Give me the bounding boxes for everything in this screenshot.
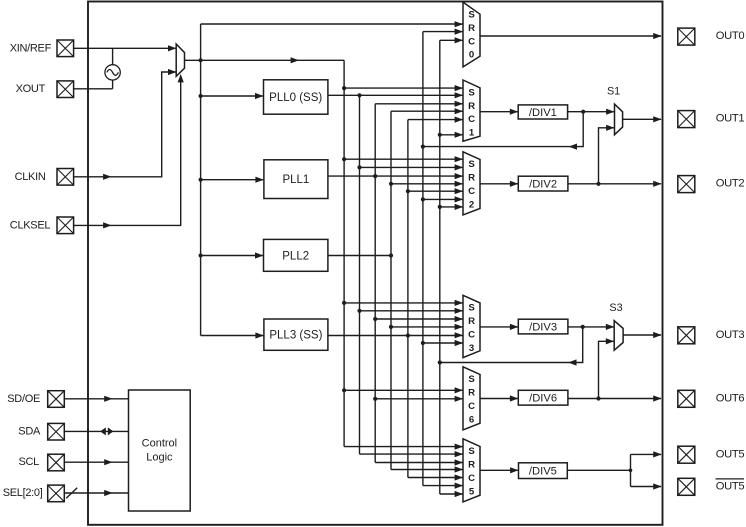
node SRC2 input1 junction [342,156,463,162]
svg-text:OUT6: OUT6 [716,392,745,404]
PLL1 block [264,160,328,199]
wire bus to SRC5 input 4 [391,466,463,472]
wire input mux output [185,57,345,63]
node PLL1 input junction [199,178,203,182]
svg-text:/DIV5: /DIV5 [529,466,557,478]
wire PLL1 bus vertical x375 [374,104,376,463]
wire to PLL3 input [201,332,264,338]
svg-text:S: S [468,159,475,170]
wire PLL2 bus vertical x391 [390,111,392,469]
svg-text:OUT3: OUT3 [716,329,745,341]
pin XOUT [16,81,74,98]
svg-text:S: S [468,374,475,385]
mux SRC2 [463,152,480,215]
wire SEL[2:0] to control logic [64,488,128,499]
svg-text:R: R [468,173,475,184]
svg-text:OUT5: OUT5 [716,448,745,460]
svg-text:CLKIN: CLKIN [15,171,46,183]
svg-text:3: 3 [469,343,474,354]
wire to PLL2 input [201,252,264,258]
svg-text:R: R [468,316,475,327]
node PLL0 bus junction [357,93,361,97]
wire bus to SRC5 input 3 [375,459,463,465]
mux SRC5 [463,439,480,502]
divider /DIV6 [518,390,568,405]
svg-text:S1: S1 [607,85,620,97]
wire PLL0 bus vertical x359 [359,95,361,454]
divider /DIV3 [518,319,568,334]
wire bus to SRC0 input 2 [423,29,463,35]
svg-text:/DIV1: /DIV1 [529,107,557,119]
svg-text:R: R [468,460,475,471]
PLL2 block [264,239,328,271]
svg-text:PLL3 (SS): PLL3 (SS) [269,330,322,342]
svg-text:S: S [468,303,475,314]
svg-text:C: C [468,401,475,412]
divider /DIV2 [518,176,568,191]
wire PLL3 bus vertical x408 [407,120,409,478]
wire to PLL1 input [201,177,264,183]
node mux output junction [199,58,203,62]
node PLL3 bus junction [406,333,410,337]
wire DIV6 tap to S3 input 2 [599,338,615,398]
svg-text:1: 1 [469,128,475,139]
wire bus to SRC1 input 3 [375,101,463,107]
wire bus to SRC1 input 4 [391,108,463,114]
wire SRC5 output to DIV5 [480,467,519,473]
wire SD/OE to control logic [64,396,128,402]
node SRC3 input2 junction [357,308,463,314]
node PLL2 input junction [199,253,203,257]
wire S1 output to OUT1 [623,116,662,122]
svg-text:PLL0 (SS): PLL0 (SS) [269,92,322,104]
mux SRC6 [463,367,480,430]
chip outline border [88,2,663,525]
node SRC2 input2 junction [357,164,463,170]
mux SRC1 [463,80,480,141]
node SRC1 input1 junction [342,85,463,91]
svg-text:0: 0 [469,50,474,61]
node SRC6 input2 junction [373,396,463,402]
svg-text:C: C [468,114,475,125]
svg-text:C: C [468,473,475,484]
wire bus to SRC5 input 2 [360,451,464,457]
node SRC2 input7 junction [438,204,463,210]
label S3 [609,302,622,314]
wire DIV1 output to S1 [568,109,615,115]
mux S1 [615,104,623,135]
svg-text:SD/OE: SD/OE [7,393,40,405]
wire PLL3 output to SRC3 [328,332,463,338]
svg-text:SEL[2:0]: SEL[2:0] [3,487,43,499]
node SRC2 input6 junction [421,196,463,202]
node SRC2 input5 junction [406,188,463,194]
mux SRC3 [463,295,480,357]
wire S3 output to OUT3 [623,332,662,338]
svg-text:C: C [468,186,475,197]
wire SRC1 output to DIV1 [480,109,518,115]
svg-text:PLL1: PLL1 [282,174,309,186]
svg-text:Control: Control [142,438,177,450]
wire SRC3 output to DIV3 [480,324,518,330]
wire DIV5 output split to OUT5 pair [567,451,661,489]
wire SRC2 output to DIV2 [480,181,518,187]
wire bus to SRC0 input 3 [440,37,463,43]
PLL3 (SS) block [264,319,328,350]
pin OUT1 [678,111,745,128]
wire DIV3 feedback bus vertical x440 [439,40,441,494]
svg-text:C: C [468,36,475,47]
node PLL0 input junction [199,94,203,98]
wire CLKSEL to input mux select [74,74,184,229]
svg-text:R: R [468,101,475,112]
pin SEL[2:0] [3,485,65,502]
input mux (reference select) [176,44,184,76]
node SRC3 input4 junction [389,324,463,330]
wire XIN/REF to input mux [74,45,177,51]
label S1 [607,85,620,97]
svg-text:R: R [468,23,475,34]
wire DIV2 output to OUT2 [568,181,662,187]
svg-text:C: C [468,330,475,341]
svg-text:S: S [468,446,475,457]
svg-text:SCL: SCL [19,456,40,468]
wire SDA to control logic (bidirectional) [64,427,128,435]
wire reference bus vertical [200,24,202,336]
wire bus to SRC1 input 5 [408,117,463,123]
wire PLL1 output to SRC2 [328,173,463,179]
svg-text:S: S [468,10,475,21]
pin OUT5 [678,446,745,463]
wire bus to SRC5 input 6 [423,483,463,489]
svg-text:S3: S3 [609,302,622,314]
pin OUT0 [678,28,745,45]
wire PLL0 output to SRC1 [328,92,463,98]
pin SDA [18,423,64,440]
svg-text:OUT0: OUT0 [716,30,745,42]
node SRC3 input1 junction [342,300,463,306]
wire DIV2 tap to S1 input 2 [599,125,615,184]
mux S3 [614,321,623,351]
svg-text:PLL2: PLL2 [282,250,309,262]
pin XIN/REF [10,40,74,57]
svg-text:OUT2: OUT2 [716,178,745,190]
Control Logic block [129,390,191,511]
svg-text:XOUT: XOUT [16,83,46,95]
wire PLL2 output to bus [328,255,391,257]
svg-text:Logic: Logic [146,452,173,464]
divider /DIV5 [519,463,568,479]
pin OUT6 [678,390,745,407]
svg-text:/DIV3: /DIV3 [529,322,557,334]
svg-text:6: 6 [469,414,474,425]
wire XOUT to crystal [74,88,113,90]
svg-text:OUT1: OUT1 [716,113,745,125]
wire DIV1 feedback bus vertical x423 [422,32,424,486]
svg-text:/DIV6: /DIV6 [529,393,557,405]
node PLL2 bus junction [389,253,393,257]
svg-text:S: S [468,87,475,98]
wire to PLL0 input [201,93,264,99]
wire SCL to control logic [64,459,128,465]
pin OUT2 [678,176,745,193]
PLL0 (SS) block [264,80,328,114]
svg-text:/DIV2: /DIV2 [529,179,557,191]
wire SRC6 output to DIV6 [480,395,518,401]
svg-text:XIN/REF: XIN/REF [10,42,52,54]
pin CLKSEL [10,217,74,234]
wire DIV3 output to S3 [568,324,614,330]
node PLL1 bus junction [373,174,377,178]
wire DIV1 feedback to bus [421,112,583,150]
wire DIV6 output to OUT6 [568,395,662,401]
wire SRC0 output to OUT0 [480,33,662,39]
mux SRC0 [463,2,480,67]
node SRC2 input4 junction [389,181,463,187]
node SRC1 input6 junction [438,132,463,138]
wire CLKIN to input mux [74,69,177,180]
wire bus to SRC0 input 1 [201,21,463,27]
wire DIV3 feedback to bus [438,327,583,366]
svg-text:SDA: SDA [18,425,41,437]
node SRC3 input6 junction [421,340,463,346]
pin SD/OE [7,391,64,408]
pin OUT5bar [678,478,745,495]
wire bus to SRC5 input 5 [408,474,463,480]
node SRC3 input3 junction [373,316,463,322]
wire bus to SRC5 input 7 [440,491,463,497]
node SRC6 input1 junction [342,387,463,393]
svg-text:5: 5 [469,486,475,497]
svg-text:2: 2 [469,199,474,210]
svg-text:OUT5: OUT5 [716,480,745,492]
svg-text:CLKSEL: CLKSEL [10,219,51,231]
divider /DIV1 [518,105,567,119]
svg-text:R: R [468,388,475,399]
pin OUT3 [678,327,745,344]
pin CLKIN [15,169,74,186]
crystal oscillator Y1 [105,48,120,89]
wire clock bus vertical x344 [343,60,345,446]
wire bus to SRC5 input 1 [344,444,463,450]
pin SCL [19,454,65,471]
